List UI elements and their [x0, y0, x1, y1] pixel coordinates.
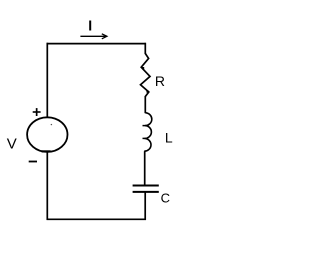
svg-text:C: C [161, 190, 170, 205]
wire bottom horizontal [47, 218, 146, 220]
wire right top (to resistor) [144, 43, 146, 54]
wire right middle (resistor to inductor) [144, 96, 146, 113]
wire left lower [46, 152, 48, 220]
plus sign [33, 108, 41, 116]
svg-text:L: L [165, 129, 173, 145]
wire top horizontal [47, 43, 146, 45]
inductor L coil [144, 113, 152, 151]
inductor cusp tick 2 [143, 137, 146, 139]
voltage source V1 circle [27, 117, 67, 152]
wire left upper [46, 43, 48, 118]
resistor R [141, 54, 151, 97]
source bottom junction [42, 150, 51, 152]
current arrow [80, 34, 107, 39]
minus sign [29, 161, 37, 163]
svg-text:R: R [155, 73, 165, 89]
resistor vertex blob 1 [142, 67, 144, 69]
resistor vertex blob 2 [146, 90, 148, 92]
inductor cusp tick 1 [143, 125, 146, 127]
wire right bottom (capacitor to bottom wire) [144, 193, 146, 221]
capacitor C top plate [133, 185, 159, 187]
wire right (inductor to capacitor) [144, 151, 146, 185]
capacitor C bottom plate [133, 191, 159, 193]
node dot inside source [51, 124, 52, 125]
svg-text:V: V [7, 136, 17, 153]
label I [89, 21, 91, 31]
